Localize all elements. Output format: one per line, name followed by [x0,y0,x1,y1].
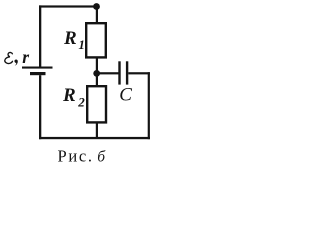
resistor R2 body [87,86,106,122]
battery cell E,r short thick plate [30,72,46,75]
svg-text:Рис.: Рис. [58,147,94,166]
label R1 [63,28,85,52]
svg-text:2: 2 [77,95,85,110]
caption Fig. b [58,147,107,166]
label r (internal resistance) [22,47,29,67]
label comma after script-E [14,59,17,65]
wire left vertical lower (battery to bottom) [39,75,41,139]
wire R1 bottom lead [96,58,98,74]
svg-text:б: б [97,149,106,166]
label C [119,84,132,105]
node middle junction dot [93,70,100,77]
wire R1 top lead [96,7,98,24]
svg-text:R: R [63,28,77,49]
resistor R1 body [86,23,106,57]
wire R2 bottom lead [96,123,98,139]
wire top horizontal [39,5,97,7]
node top junction dot [93,3,100,10]
svg-text:r: r [22,47,29,67]
svg-text:R: R [62,85,76,106]
wire right vertical [148,72,150,139]
wire node to capacitor [97,72,119,74]
svg-text:C: C [119,84,132,105]
capacitor C right plate [126,61,128,84]
wire left vertical upper (to battery) [39,5,41,66]
svg-text:1: 1 [78,37,85,52]
label EMF script-E [5,52,13,63]
wire capacitor to right corner [128,72,150,74]
capacitor C left plate [118,61,120,84]
wire bottom horizontal [39,137,150,139]
wire R2 top lead [96,73,98,86]
battery cell E,r long plate [22,67,53,69]
label R2 [62,85,85,110]
